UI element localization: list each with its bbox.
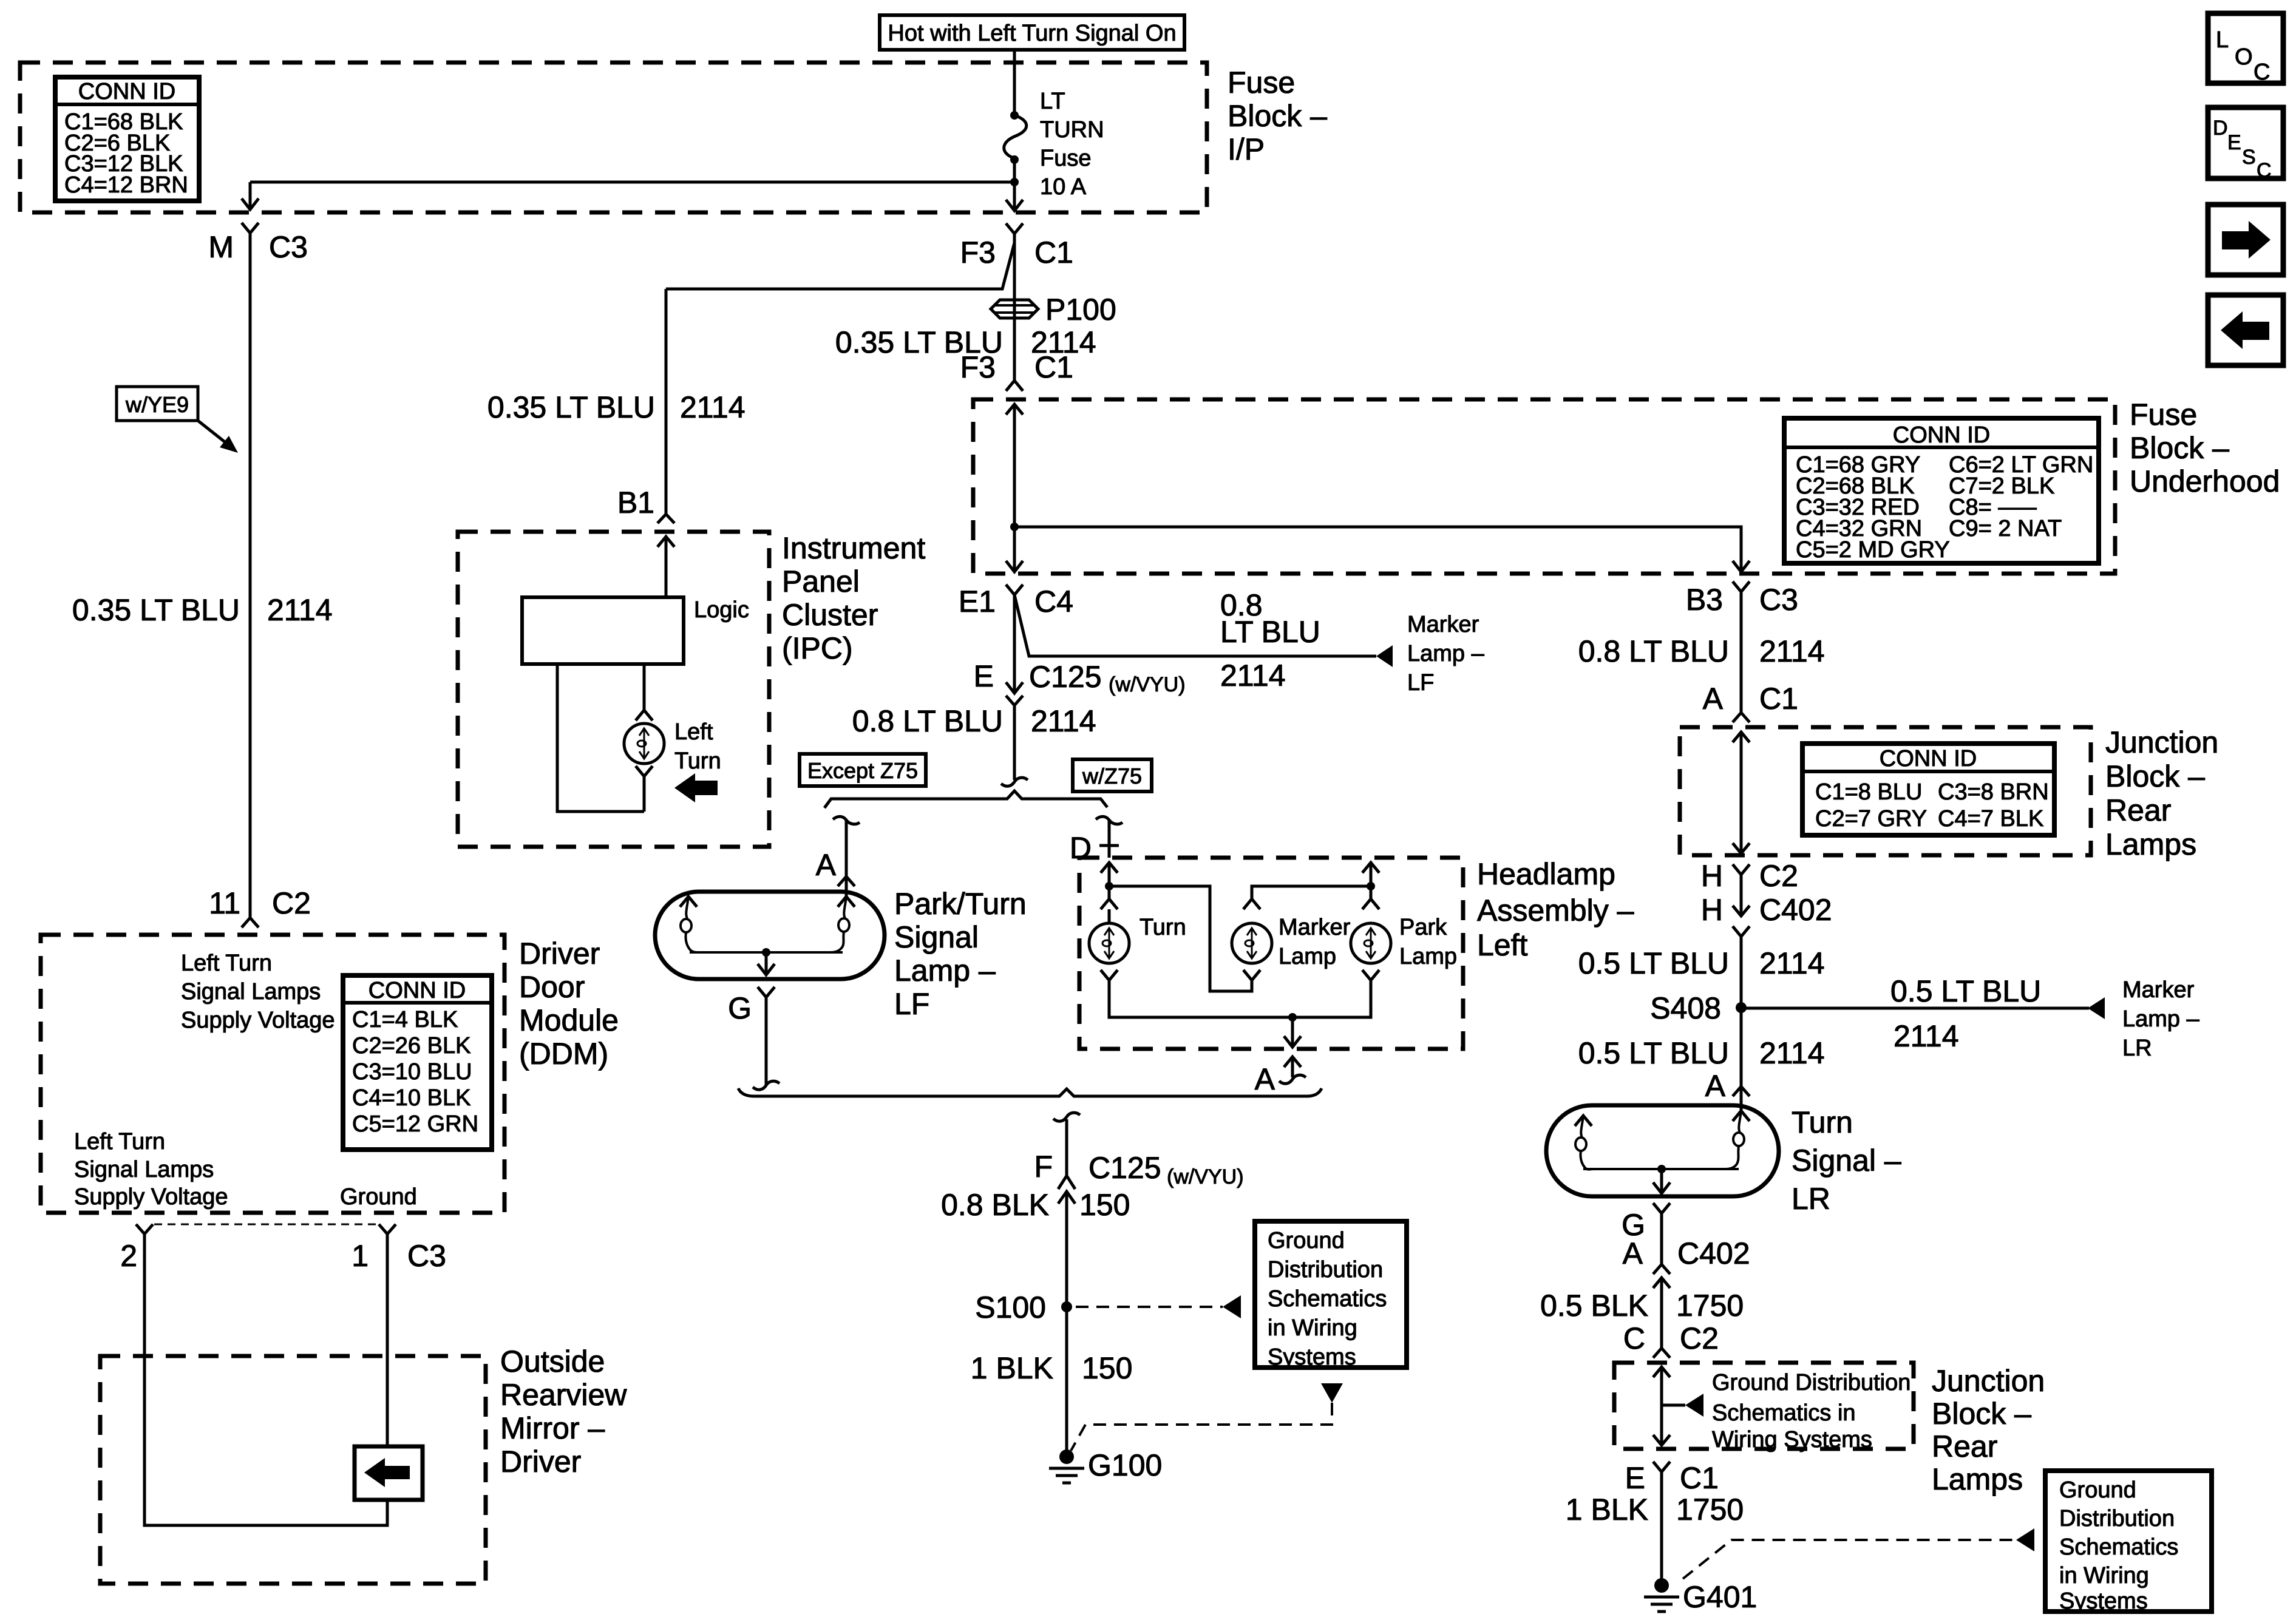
svg-text:A: A	[1703, 682, 1724, 716]
svg-text:Park: Park	[1399, 915, 1447, 940]
ground distribution reference box (S100)	[1255, 1221, 1407, 1370]
svg-text:(IPC): (IPC)	[782, 631, 853, 665]
svg-text:A: A	[1255, 1062, 1275, 1096]
svg-text:Assembly –: Assembly –	[1477, 893, 1634, 927]
junction block 2 label	[1932, 1364, 2045, 1496]
junction dot at fuse output	[1010, 178, 1019, 186]
svg-text:Lamp: Lamp	[1279, 944, 1336, 969]
ground distribution reference text (junction block 2)	[1712, 1370, 1911, 1453]
svg-text:G401: G401	[1683, 1580, 1757, 1614]
arrow down out of junction block	[1733, 843, 1750, 853]
wire F3 to P100 to F3	[1013, 234, 1016, 380]
svg-text:Headlamp: Headlamp	[1477, 857, 1615, 891]
svg-text:Schematics in: Schematics in	[1712, 1400, 1856, 1426]
svg-text:G100: G100	[1088, 1448, 1162, 1482]
fuse block underhood dashed box	[973, 399, 2115, 574]
svg-text:Driver: Driver	[500, 1445, 581, 1479]
mirror turn signal arrow box	[355, 1446, 423, 1500]
svg-text:11: 11	[209, 886, 240, 920]
junction dot (lamp LR)	[1657, 1165, 1666, 1173]
fuse block I/P label	[1228, 66, 1327, 166]
svg-text:C1: C1	[1034, 350, 1073, 384]
hook at headlamp ground wire end	[1279, 1075, 1306, 1083]
svg-text:C2=7 GRY: C2=7 GRY	[1815, 806, 1927, 832]
svg-text:D: D	[2213, 117, 2228, 140]
connector pin 1 C3	[352, 1224, 446, 1273]
connector pin 2	[120, 1224, 153, 1273]
logic module box	[522, 597, 749, 664]
fork above left turn indicator	[636, 710, 653, 720]
reference arrow down from box	[1321, 1383, 1343, 1403]
left turn indicator lamp	[624, 724, 664, 764]
wire B3 to junction block	[1740, 592, 1743, 713]
arrow up into junction block 2	[1653, 1367, 1670, 1377]
svg-text:Fuse: Fuse	[1040, 146, 1091, 171]
svg-text:Systems: Systems	[1268, 1344, 1356, 1370]
svg-text:Lamp: Lamp	[1399, 944, 1457, 969]
arrow down out of junction block 2	[1653, 1435, 1670, 1445]
svg-text:(w/VYU): (w/VYU)	[1167, 1165, 1244, 1188]
svg-text:C3=10 BLU: C3=10 BLU	[352, 1059, 472, 1085]
svg-text:Turn: Turn	[674, 748, 721, 774]
wire label 0.5 LT BLU 2114 (above S408)	[1578, 946, 1825, 980]
off-page arrow marker lamp LR	[2088, 997, 2105, 1019]
svg-text:TURN: TURN	[1040, 117, 1104, 143]
fork above marker bulb	[1243, 899, 1260, 909]
svg-text:LF: LF	[1407, 670, 1434, 696]
filament common wire (lamp LF)	[690, 951, 843, 954]
svg-text:2114: 2114	[1759, 1036, 1825, 1070]
svg-text:C402: C402	[1759, 893, 1832, 927]
wire bracket to F C125	[1065, 1119, 1068, 1176]
svg-text:2114: 2114	[1894, 1019, 1959, 1053]
svg-text:Signal Lamps: Signal Lamps	[74, 1157, 214, 1182]
svg-text:Signal: Signal	[894, 920, 979, 954]
junction dot park feed	[1367, 882, 1375, 890]
svg-text:Rear: Rear	[1932, 1429, 1997, 1463]
driver door module label	[519, 937, 619, 1071]
svg-text:M: M	[208, 230, 234, 264]
svg-text:10 A: 10 A	[1040, 174, 1087, 200]
option split hook (main wire end)	[1001, 778, 1028, 786]
arrow up into junction block	[1733, 732, 1750, 742]
turn signal lamp LR label	[1792, 1105, 1901, 1216]
svg-text:1: 1	[352, 1239, 369, 1273]
svg-text:w/YE9: w/YE9	[125, 392, 189, 417]
wire B1 to logic module	[665, 537, 668, 597]
turn bulb	[1089, 915, 1186, 963]
left turn label in IPC	[674, 719, 721, 774]
svg-text:C: C	[1623, 1321, 1645, 1355]
svg-text:C402: C402	[1677, 1236, 1750, 1270]
svg-text:Lamps: Lamps	[1932, 1462, 2023, 1496]
arrow up into underhood box	[1006, 404, 1023, 415]
svg-text:C: C	[2257, 159, 2272, 182]
svg-text:(DDM): (DDM)	[519, 1037, 608, 1071]
svg-text:Cluster: Cluster	[782, 598, 878, 632]
wire label 0.5 LT BLU 2114 (below S408)	[1578, 1036, 1825, 1070]
wire from hot feed into fuse	[1013, 50, 1016, 115]
fuse block I/P dashed box	[20, 63, 1207, 212]
wire F C125 to G100	[1065, 1192, 1068, 1457]
junction dot ground return	[1288, 1013, 1297, 1022]
arrow down to lamp LR ground	[1653, 1169, 1670, 1193]
svg-text:C5=2 MD GRY: C5=2 MD GRY	[1796, 537, 1950, 563]
ground distribution reference box (G401)	[2045, 1471, 2212, 1614]
wire label 0.8 LT BLU 2114 (marker LF)	[1220, 588, 1320, 693]
hook for w/Z75 branch	[1096, 816, 1123, 824]
wire A into lamp LF	[845, 876, 848, 897]
svg-text:Ground: Ground	[2059, 1477, 2136, 1503]
arrow up at park feed boundary	[1362, 863, 1379, 873]
svg-text:0.8 BLK: 0.8 BLK	[941, 1188, 1049, 1222]
svg-text:Fuse: Fuse	[2130, 398, 2197, 432]
hook at G wire end	[753, 1081, 779, 1090]
instrument panel cluster dashed box	[458, 532, 769, 847]
svg-text:Panel: Panel	[782, 564, 860, 598]
wire A into lamp LR	[1740, 1086, 1743, 1111]
wire to marker lamp LF	[1014, 595, 1376, 656]
wire branch to M C3	[250, 182, 1014, 209]
svg-text:Underhood: Underhood	[2130, 464, 2280, 498]
w/Z75 option box	[1073, 759, 1152, 792]
wire E1 down to C125	[1013, 595, 1016, 693]
svg-text:Driver: Driver	[519, 937, 600, 971]
left-arrow nav box	[2208, 295, 2283, 365]
connector M C3	[208, 223, 308, 264]
wire label 0.8 LT BLU 2114 (B3)	[1578, 634, 1825, 668]
svg-text:A: A	[1705, 1069, 1726, 1103]
svg-text:C125: C125	[1089, 1151, 1161, 1185]
marker lamp LR reference label	[2122, 977, 2200, 1061]
fork below turn bulb	[1101, 970, 1118, 980]
connector F3 C1 upper	[960, 223, 1073, 269]
svg-text:S100: S100	[975, 1290, 1046, 1324]
diagonal branch to B1 feed	[666, 243, 1014, 289]
svg-text:Supply Voltage: Supply Voltage	[181, 1008, 335, 1033]
junction dot (lamp LF)	[762, 948, 770, 957]
svg-text:C4=7 BLK: C4=7 BLK	[1938, 806, 2043, 832]
headlamp assembly left dashed box	[1079, 858, 1463, 1049]
off-page arrow marker lamp LF	[1376, 645, 1393, 667]
svg-text:C2: C2	[1759, 859, 1798, 893]
svg-text:C4=12 BRN: C4=12 BRN	[64, 172, 188, 198]
arrow down to lamp LF ground	[758, 952, 775, 975]
wire Except Z75 branch down to A	[845, 820, 848, 876]
fuse block underhood label	[2130, 398, 2280, 498]
svg-text:Lamp –: Lamp –	[1407, 641, 1485, 666]
svg-text:LR: LR	[2122, 1036, 2152, 1061]
fork above turn bulb	[1101, 899, 1118, 923]
connector G (lamp LR)	[1622, 1203, 1670, 1242]
svg-text:C3: C3	[269, 230, 308, 264]
Hot with Left Turn Signal On feed box	[880, 15, 1184, 50]
connector A (headlamp ground)	[1255, 1057, 1301, 1096]
option split bracket	[824, 791, 1107, 808]
svg-text:0.8 LT BLU: 0.8 LT BLU	[1578, 634, 1729, 668]
svg-text:Outside: Outside	[500, 1344, 605, 1378]
outside rearview mirror label	[500, 1344, 627, 1479]
svg-text:C3: C3	[407, 1239, 446, 1273]
junction block rear lamps label	[2105, 725, 2218, 861]
svg-text:Park/Turn: Park/Turn	[894, 887, 1027, 921]
svg-text:Rear: Rear	[2105, 793, 2171, 827]
svg-text:H: H	[1701, 859, 1723, 893]
arrow down at B3 boundary	[1733, 561, 1750, 572]
svg-text:2114: 2114	[1759, 946, 1825, 980]
svg-text:(w/VYU): (w/VYU)	[1109, 673, 1186, 696]
svg-text:Marker: Marker	[1279, 915, 1351, 940]
CONN ID table (junction block)	[1802, 744, 2054, 835]
connector B3 C3	[1686, 581, 1798, 617]
wire G down to ground bracket	[765, 997, 768, 1085]
svg-text:E: E	[1625, 1461, 1645, 1495]
svg-text:LR: LR	[1792, 1182, 1830, 1216]
hook for Except Z75 branch	[833, 816, 860, 824]
svg-text:C2=26 BLK: C2=26 BLK	[352, 1033, 470, 1059]
wire turn feed to junction	[1108, 863, 1111, 899]
svg-text:F3: F3	[960, 236, 996, 269]
svg-text:A: A	[816, 848, 837, 882]
reference arrow (junction block 2)	[1685, 1394, 1703, 1417]
svg-text:1750: 1750	[1676, 1493, 1744, 1527]
svg-text:H: H	[1701, 893, 1723, 927]
left filament coil (lamp LF)	[680, 897, 698, 952]
svg-text:Ground: Ground	[340, 1184, 417, 1210]
arrow down at E1 boundary	[1006, 561, 1023, 572]
svg-text:Turn: Turn	[1140, 915, 1186, 940]
connector 11 C2	[209, 886, 311, 927]
svg-text:O: O	[2235, 44, 2253, 70]
wire through junction block	[1740, 732, 1743, 853]
svg-text:Turn: Turn	[1792, 1105, 1853, 1139]
svg-text:Block –: Block –	[1228, 99, 1327, 133]
ground G401	[1644, 1578, 1757, 1614]
marker lamp LF reference label	[1407, 612, 1485, 696]
wire M C3 down to DDM	[249, 233, 252, 918]
wire H to C402	[1740, 875, 1743, 916]
fork below left turn indicator	[636, 766, 653, 776]
svg-text:in Wiring: in Wiring	[1268, 1315, 1357, 1341]
connector G (lamp LF)	[728, 987, 775, 1025]
svg-text:CONN ID: CONN ID	[78, 79, 175, 104]
park feed wire	[1370, 863, 1373, 899]
connector H C2	[1701, 859, 1798, 893]
arrow up into headlamp box (turn feed)	[1101, 863, 1118, 873]
wire label 0.35 LT BLU 2114 (center)	[835, 325, 1096, 359]
svg-text:Marker: Marker	[1407, 612, 1479, 637]
Except Z75 option box	[800, 754, 926, 786]
connector E C1	[1625, 1461, 1719, 1495]
svg-text:C9= 2 NAT: C9= 2 NAT	[1949, 516, 2062, 541]
connector A (turn signal LR)	[1705, 1069, 1750, 1103]
instrument panel cluster label	[782, 531, 925, 665]
wire C125 down to option split	[1013, 705, 1016, 780]
svg-text:I/P: I/P	[1228, 132, 1265, 166]
svg-text:F3: F3	[960, 350, 996, 384]
wire label 0.8 BLK 150	[941, 1188, 1130, 1222]
reference branch in junction block 2	[1662, 1404, 1685, 1407]
arrow down at fuse block I/P boundary	[1006, 200, 1023, 211]
splice S100	[975, 1290, 1072, 1324]
svg-text:150: 150	[1082, 1351, 1132, 1385]
svg-text:LT: LT	[1040, 89, 1065, 114]
svg-text:Door: Door	[519, 970, 585, 1004]
junction block rear lamps 2 dashed box	[1614, 1363, 1914, 1449]
park/turn signal lamp LF label	[894, 887, 1027, 1021]
junction block rear lamps dashed box	[1680, 727, 2091, 855]
right filament coil (lamp LF)	[830, 897, 855, 952]
black left option arrow in IPC	[674, 773, 718, 802]
driver door module dashed box	[41, 935, 504, 1213]
svg-text:Distribution: Distribution	[1268, 1257, 1383, 1283]
reference arrow (G401)	[2016, 1528, 2034, 1551]
CONN ID table (underhood)	[1784, 418, 2099, 563]
ground G100	[1049, 1448, 1162, 1483]
wire label 1 BLK 150	[971, 1351, 1133, 1385]
svg-text:0.5 BLK: 0.5 BLK	[1540, 1289, 1648, 1323]
ground return wire in headlamp box	[1109, 980, 1371, 1017]
svg-text:LF: LF	[894, 987, 929, 1021]
wire E C1 to G401	[1660, 1472, 1663, 1581]
w/YE9 option box	[117, 387, 198, 421]
svg-text:0.5 LT BLU: 0.5 LT BLU	[1578, 946, 1729, 980]
svg-text:2114: 2114	[680, 390, 746, 424]
dashed reference to G100	[1071, 1403, 1332, 1451]
wire label 0.35 LT BLU 2114 (door feed)	[72, 593, 333, 627]
svg-text:Wiring Systems: Wiring Systems	[1712, 1427, 1872, 1453]
outside rearview mirror dashed box	[100, 1356, 486, 1584]
svg-text:Systems: Systems	[2059, 1588, 2148, 1614]
svg-text:2: 2	[120, 1239, 137, 1273]
left turn signal lamps supply voltage label upper	[181, 951, 335, 1033]
connector H C402 inline	[1701, 893, 1832, 937]
svg-text:Instrument: Instrument	[782, 531, 925, 565]
connector E1 C4	[959, 585, 1073, 619]
svg-text:Left: Left	[1477, 928, 1528, 962]
svg-text:2114: 2114	[1759, 634, 1825, 668]
connector E C125 inline	[974, 659, 1186, 705]
svg-text:w/Z75: w/Z75	[1082, 764, 1142, 788]
svg-text:1 BLK: 1 BLK	[971, 1351, 1053, 1385]
svg-text:Schematics: Schematics	[1268, 1286, 1387, 1312]
fork below marker bulb	[1243, 970, 1260, 980]
connector A (park/turn lamp LF)	[816, 848, 855, 886]
connector F3 C1 lower	[960, 350, 1073, 391]
left turn signal lamps supply voltage label lower	[74, 1129, 228, 1210]
svg-text:Lamp –: Lamp –	[894, 954, 996, 988]
park/turn signal lamp LF body	[655, 892, 885, 979]
wire label 0.5 BLK 1750	[1540, 1289, 1744, 1323]
svg-text:Left Turn: Left Turn	[74, 1129, 165, 1154]
park bulb	[1351, 915, 1457, 969]
svg-text:C1=8 BLU: C1=8 BLU	[1815, 779, 1922, 805]
arrow down at M C3 boundary	[242, 198, 259, 209]
marker bulb	[1232, 915, 1351, 969]
fork below park bulb	[1362, 970, 1379, 980]
svg-text:E: E	[2227, 131, 2241, 154]
wire branch to B3	[1014, 527, 1741, 572]
svg-text:S408: S408	[1650, 991, 1721, 1025]
svg-text:P100: P100	[1045, 293, 1116, 327]
svg-text:in Wiring: in Wiring	[2059, 1563, 2149, 1588]
dashed reference from S100	[1076, 1306, 1223, 1308]
arrow up into IPC	[657, 537, 674, 547]
junction dot turn feed	[1105, 882, 1113, 890]
wire label 1 BLK 1750	[1566, 1493, 1744, 1527]
arrow down out of headlamp box	[1284, 1017, 1301, 1047]
svg-text:Hot with Left Turn Signal On: Hot with Left Turn Signal On	[888, 21, 1176, 46]
svg-text:Block –: Block –	[2105, 759, 2205, 793]
connector A C1 (junction block)	[1703, 682, 1798, 722]
wire through underhood box	[1013, 404, 1016, 572]
svg-text:Supply Voltage: Supply Voltage	[74, 1184, 228, 1210]
svg-text:B1: B1	[617, 486, 654, 520]
svg-text:C125: C125	[1029, 660, 1102, 694]
svg-text:C1: C1	[1034, 236, 1073, 269]
connector C C2	[1623, 1321, 1719, 1358]
svg-text:LT BLU: LT BLU	[1220, 615, 1320, 649]
connector A C402 inline	[1623, 1236, 1750, 1288]
desc reference box	[2208, 107, 2283, 182]
svg-text:C1: C1	[1759, 682, 1798, 716]
svg-text:Lamps: Lamps	[2105, 827, 2196, 861]
svg-text:C1: C1	[1680, 1461, 1719, 1495]
wire pin 1 to mirror arrow box	[386, 1234, 389, 1446]
wire pin 2 loop to mirror arrow box	[144, 1234, 387, 1525]
svg-text:C2: C2	[1680, 1321, 1719, 1355]
left filament coil (lamp LR)	[1575, 1116, 1593, 1170]
svg-text:Mirror –: Mirror –	[500, 1411, 605, 1445]
right filament coil (lamp LR)	[1725, 1111, 1750, 1169]
svg-text:E: E	[974, 659, 994, 693]
fuse LT TURN 10A	[1004, 89, 1104, 200]
splice S408	[1650, 991, 1747, 1025]
svg-text:B3: B3	[1686, 583, 1723, 617]
svg-text:Lamp –: Lamp –	[2122, 1006, 2200, 1032]
svg-text:150: 150	[1079, 1188, 1130, 1222]
svg-text:CONN ID: CONN ID	[1893, 422, 1990, 448]
svg-text:Block –: Block –	[1932, 1397, 2031, 1431]
svg-text:C3: C3	[1759, 583, 1798, 617]
svg-text:C1=4 BLK: C1=4 BLK	[352, 1007, 458, 1032]
svg-text:Left Turn: Left Turn	[181, 951, 272, 976]
svg-text:CONN ID: CONN ID	[369, 978, 466, 1003]
svg-text:Fuse: Fuse	[1228, 66, 1295, 100]
svg-text:Left: Left	[674, 719, 713, 745]
headlamp assembly left label	[1477, 857, 1634, 962]
svg-text:2114: 2114	[1031, 704, 1096, 738]
svg-text:Distribution: Distribution	[2059, 1506, 2175, 1531]
grommet P100	[991, 293, 1116, 327]
svg-text:CONN ID: CONN ID	[1880, 746, 1977, 771]
svg-text:Module: Module	[519, 1003, 619, 1037]
svg-text:Rearview: Rearview	[500, 1378, 627, 1412]
svg-text:F: F	[1034, 1150, 1053, 1184]
svg-text:Junction: Junction	[1932, 1364, 2045, 1398]
loc reference box	[2208, 13, 2283, 85]
svg-text:1750: 1750	[1676, 1289, 1744, 1323]
svg-text:1 BLK: 1 BLK	[1566, 1493, 1648, 1527]
svg-text:0.5 LT BLU: 0.5 LT BLU	[1890, 974, 2041, 1008]
filament common wire (lamp LR)	[1583, 1168, 1739, 1170]
wire label 0.5 LT BLU 2114 (marker LR branch)	[1890, 974, 2041, 1053]
svg-text:Ground Distribution: Ground Distribution	[1712, 1370, 1911, 1395]
wire C402 to turn signal LR	[1740, 937, 1743, 1086]
svg-text:2114: 2114	[1220, 659, 1286, 693]
connector F C125 inline	[1034, 1150, 1243, 1204]
svg-text:Junction: Junction	[2105, 725, 2218, 759]
